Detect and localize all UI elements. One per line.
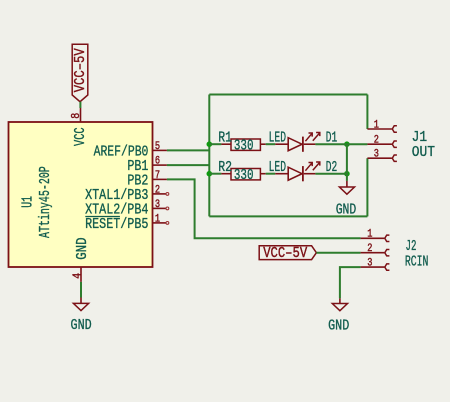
label D1 [326, 129, 338, 146]
junction dot (D1 cathode / J1.2) [344, 141, 350, 147]
label R1 [218, 129, 232, 146]
svg-text:GND: GND [336, 202, 357, 219]
pin 6 PB1 [127, 155, 167, 175]
ic U1 ATtiny45-20P body [9, 122, 153, 267]
svg-text:3: 3 [374, 149, 379, 161]
junction dot (bus / R1) [207, 141, 213, 147]
svg-text:1: 1 [374, 119, 380, 131]
pin 4 GND (bottom) [71, 237, 91, 282]
wire top rail down to J1 pin1 [366, 95, 368, 130]
label J1 [412, 129, 428, 146]
svg-text:6: 6 [155, 155, 160, 167]
connector J1 pin 3 [367, 149, 397, 162]
svg-text:3: 3 [367, 257, 372, 269]
svg-text:3: 3 [155, 199, 160, 211]
label J2 [406, 238, 417, 255]
led D2 [275, 162, 320, 181]
svg-text:2: 2 [367, 243, 372, 255]
wire bus to R2 [209, 173, 221, 175]
ground (LED cathodes) [336, 181, 357, 219]
pin 5 AREF/PB0 [94, 141, 167, 161]
wire D1 junction down to D2 junction [346, 144, 348, 174]
wire VCC flag to J2 pin2 [316, 252, 360, 254]
svg-text:7: 7 [155, 170, 160, 182]
wire D2 junction down to GND [346, 174, 348, 181]
svg-text:LED: LED [269, 159, 286, 176]
wire top rail [209, 94, 367, 96]
svg-text:VCC–5V: VCC–5V [263, 245, 307, 262]
svg-text:VCC–5V: VCC–5V [72, 48, 89, 92]
label LED (D2) [269, 159, 286, 176]
wire D2 to junction [315, 173, 347, 175]
wire pin6 to bus vertical [167, 164, 209, 166]
pin 8 VCC (top) [70, 108, 89, 146]
connector J1 pin 2 [367, 135, 397, 148]
wire pin4 to GND [80, 282, 82, 298]
svg-text:1: 1 [155, 213, 161, 225]
wire R2 to D2 [266, 173, 276, 175]
svg-text:R2: R2 [218, 159, 232, 176]
led D1 [275, 133, 320, 152]
wire VCC flag to pin 8 [79, 102, 81, 108]
ground (J2 pin3) [328, 298, 349, 334]
svg-text:330: 330 [234, 167, 254, 184]
power flag VCC-5V (J2 pin2) [259, 245, 316, 262]
wire pin7 to J2 pin1 [167, 179, 361, 238]
wire junction to J1 pin2 [347, 143, 368, 145]
connector J2 pin 1 [361, 229, 390, 242]
pin 3 XTAL2/PB4 [85, 199, 169, 219]
svg-text:OUT: OUT [412, 144, 435, 161]
label R2 [218, 159, 232, 176]
wire J2 pin3 to GND [340, 267, 361, 298]
junction dot (D2 cathode / GND) [344, 171, 350, 177]
pin 1 RESET/PB5 [85, 213, 169, 233]
wire bus to R1 [209, 143, 221, 145]
wire bottom rail [209, 215, 367, 217]
resistor R1 330 [221, 139, 265, 150]
pin 2 XTAL1/PB3 [85, 184, 169, 204]
label LED (D1) [269, 129, 286, 146]
wire left vertical bus [208, 95, 210, 217]
pin 7 PB2 [127, 170, 167, 190]
svg-text:J2: J2 [406, 238, 417, 255]
label U1 [20, 196, 37, 208]
svg-text:8: 8 [70, 113, 83, 119]
svg-text:4: 4 [71, 273, 84, 279]
svg-text:VCC: VCC [72, 127, 89, 146]
svg-text:RCIN: RCIN [405, 253, 429, 270]
svg-text:GND: GND [74, 237, 91, 259]
svg-text:2: 2 [155, 184, 160, 196]
ground (U1 pin4) [71, 298, 92, 334]
svg-text:330: 330 [234, 137, 254, 154]
connector J2 pin 3 [361, 257, 390, 270]
svg-text:GND: GND [71, 317, 92, 334]
svg-text:R1: R1 [218, 129, 232, 146]
value 330 (R1) [234, 137, 254, 154]
svg-text:5: 5 [155, 141, 160, 153]
wire pin5 to bus vertical [167, 149, 209, 151]
label RCIN [405, 253, 429, 270]
svg-text:1: 1 [367, 229, 373, 241]
svg-text:ATtiny45-20P: ATtiny45-20P [37, 166, 54, 238]
svg-text:LED: LED [269, 129, 286, 146]
connector J2 pin 2 [361, 243, 390, 256]
label OUT [412, 144, 435, 161]
power flag VCC-5V (top) [72, 44, 89, 101]
value 330 (R2) [234, 167, 254, 184]
svg-text:U1: U1 [20, 196, 37, 208]
wire D1 to junction [315, 143, 347, 145]
label D2 [326, 159, 338, 176]
junction dot (bus / R2) [207, 171, 213, 177]
label ATtiny45-20P [37, 166, 54, 238]
svg-text:GND: GND [328, 318, 349, 335]
connector J1 pin 1 [367, 119, 397, 132]
svg-text:RESET/PB5: RESET/PB5 [85, 216, 148, 233]
wire bottom rail up to J1 pin3 [366, 158, 368, 216]
resistor R2 330 [221, 169, 265, 180]
svg-text:2: 2 [374, 135, 379, 147]
wire R1 to D1 [266, 143, 276, 145]
